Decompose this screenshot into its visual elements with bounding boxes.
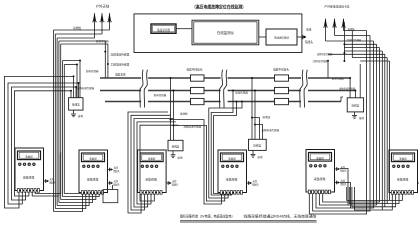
svg-text:液晶屏: 液晶屏 <box>228 156 236 160</box>
svg-text:采集终端: 采集终端 <box>87 177 99 182</box>
svg-text:接地: 接地 <box>78 114 84 118</box>
svg-text:电缆中间接头: 电缆中间接头 <box>273 67 289 71</box>
svg-text:液晶屏: 液晶屏 <box>25 154 33 158</box>
svg-text:高频电流传感器: 高频电流传感器 <box>111 53 130 57</box>
svg-text:取电传感器: 取电传感器 <box>154 93 167 97</box>
svg-text:接线盒: 接线盒 <box>72 103 80 107</box>
svg-text:接地线: 接地线 <box>180 112 188 116</box>
svg-text:接地线: 接地线 <box>73 26 81 30</box>
svg-text:馈线头: 馈线头 <box>305 40 313 44</box>
svg-text:工频电流传感器: 工频电流传感器 <box>111 63 130 67</box>
svg-text:采集终端: 采集终端 <box>226 177 238 182</box>
svg-text:接线盒: 接线盒 <box>253 144 261 148</box>
svg-text:接线盒: 接线盒 <box>172 144 180 148</box>
svg-text:取电传感器: 取电传感器 <box>235 91 248 95</box>
svg-text:液晶显示器: 液晶显示器 <box>157 28 170 32</box>
svg-text:液晶屏: 液晶屏 <box>399 156 407 160</box>
svg-text:户外天线: 户外天线 <box>96 4 110 9</box>
svg-text:液晶屏: 液晶屏 <box>148 156 156 160</box>
svg-text:电缆中间接头: 电缆中间接头 <box>186 67 202 71</box>
svg-text:接地: 接地 <box>258 155 264 159</box>
svg-text:取电传感器: 取电传感器 <box>96 39 109 43</box>
svg-text:无线通信模块: 无线通信模块 <box>274 36 290 40</box>
svg-text:接地: 接地 <box>178 155 184 159</box>
svg-text:接线盒: 接线盒 <box>352 104 360 108</box>
svg-text:天线: 天线 <box>306 28 312 32</box>
svg-text:（高压电缆故障定位在线监测）: （高压电缆故障定位在线监测） <box>192 3 246 10</box>
svg-text:取电传感器: 取电传感器 <box>86 69 99 73</box>
svg-text:液晶屏: 液晶屏 <box>89 156 97 160</box>
svg-text:接地: 接地 <box>359 116 365 120</box>
svg-text:高频电流传感器: 高频电流传感器 <box>262 128 280 132</box>
svg-text:采集终端: 采集终端 <box>314 176 326 181</box>
svg-text:户外等电位连接卡具: 户外等电位连接卡具 <box>324 5 349 9</box>
svg-text:采集终端: 采集终端 <box>23 175 35 180</box>
svg-text:电缆本体: 电缆本体 <box>115 73 126 77</box>
svg-text:采集终端: 采集终端 <box>397 177 409 182</box>
svg-text:在线监测仪: 在线监测仪 <box>217 30 235 35</box>
svg-text:接地线: 接地线 <box>263 115 271 119</box>
svg-text:线路采集终端通过RS485线，无线串联通信: 线路采集终端通过RS485线，无线串联通信 <box>244 213 318 218</box>
svg-text:图标采集终端（9V电源，电缆感应取电）: 图标采集终端（9V电源，电缆感应取电） <box>180 213 235 218</box>
svg-text:液晶屏: 液晶屏 <box>316 156 324 160</box>
svg-text:采集终端: 采集终端 <box>145 177 157 182</box>
svg-text:高频电流传感器: 高频电流传感器 <box>77 86 95 90</box>
